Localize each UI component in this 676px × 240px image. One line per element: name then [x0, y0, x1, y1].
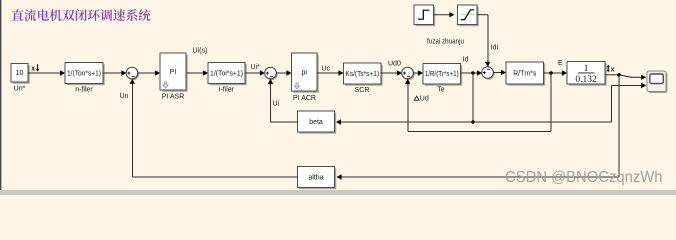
wire PI ACR to SCR	[317, 70, 344, 75]
wire beta line to scope input 2	[473, 83, 646, 122]
wire sum4 to R/Tm*s	[493, 70, 506, 75]
svg-text:Ui(s): Ui(s)	[193, 48, 208, 55]
wire sum3 to Te	[413, 70, 423, 75]
wire saturation to sum4 (IdL)	[477, 15, 490, 67]
transfer-fcn Te 1/R/(Tr*s+1)	[423, 64, 462, 94]
wire gain to scope input 1	[605, 73, 646, 80]
step block (load torque)	[414, 5, 435, 26]
wire Te to sum4 with Id branch node	[461, 70, 483, 75]
svg-text:Un: Un	[120, 93, 129, 100]
sum junction 1 (speed error)	[126, 67, 139, 80]
svg-text:altha: altha	[308, 174, 323, 181]
svg-text:Uc: Uc	[322, 66, 331, 73]
svg-text:Id: Id	[463, 57, 469, 64]
svg-text:i-filer: i-filer	[219, 87, 235, 94]
svg-text:CSDN @BNOCzqnzWh: CSDN @BNOCzqnzWh	[505, 169, 663, 186]
svg-text:1/R/(Tr*s+1): 1/R/(Tr*s+1)	[425, 71, 459, 78]
svg-text:1/(Ton*s+1): 1/(Ton*s+1)	[67, 70, 101, 77]
svg-text:Un*: Un*	[14, 86, 26, 93]
transfer-fcn i-filer 1/(Toi*s+1)	[208, 63, 247, 94]
wire beta to sum2	[268, 79, 298, 122]
bottom scrollbar strip	[0, 190, 676, 195]
wire Un* to n-filer	[28, 70, 65, 75]
annotation updown-x	[607, 67, 609, 71]
svg-text:E: E	[558, 60, 563, 67]
wire SCR to sum3	[381, 70, 402, 75]
sum junction 3 (armature voltage minus EMF)	[402, 67, 415, 80]
saturation block	[458, 5, 479, 26]
svg-text:beta: beta	[309, 119, 323, 126]
wire Id node down to beta line	[471, 73, 474, 124]
svg-text:Ud0: Ud0	[388, 60, 401, 67]
sum junction 2 (current error)	[265, 67, 278, 80]
svg-text:Te: Te	[437, 87, 445, 94]
svg-text:1: 1	[584, 64, 589, 74]
svg-text:Ui*: Ui*	[251, 64, 261, 71]
svg-text:x: x	[611, 66, 615, 73]
wire step to saturation	[434, 12, 455, 17]
wire E node down-left-up to sum3 (back EMF)	[405, 73, 551, 132]
svg-text:pi: pi	[302, 69, 308, 76]
svg-text:0.132: 0.132	[575, 75, 597, 85]
scope block	[647, 71, 668, 93]
svg-text:Ks/(Ts*s+1): Ks/(Ts*s+1)	[346, 71, 380, 78]
gain beta (current feedback)	[298, 111, 337, 134]
wire n-filer to sum1	[103, 70, 126, 75]
svg-text:1/(Toi*s+1): 1/(Toi*s+1)	[210, 70, 243, 77]
wire sum2 to PI ACR	[276, 70, 291, 75]
source block Un* value 10	[11, 64, 30, 93]
svg-text:Ui: Ui	[273, 101, 280, 108]
wire into beta block	[336, 119, 473, 124]
transfer-fcn SCR Ks/(Ts*s+1)	[344, 63, 383, 94]
gain block 1/0.132	[567, 62, 607, 86]
PI current regulator ACR	[292, 53, 319, 102]
wire output node down to altha line	[618, 75, 620, 177]
wire altha to sum1	[130, 79, 298, 177]
gain altha (speed feedback)	[298, 167, 337, 190]
PI speed regulator ASR	[160, 53, 188, 101]
svg-text:PI ACR: PI ACR	[293, 95, 316, 102]
svg-text:PI: PI	[170, 69, 177, 76]
transfer-fcn n-filer 1/(Ton*s+1)	[65, 63, 105, 94]
svg-text:n-filer: n-filer	[75, 87, 93, 94]
svg-text:PI ASR: PI ASR	[162, 94, 185, 101]
svg-text:10: 10	[16, 70, 24, 77]
svg-text:x: x	[31, 65, 35, 72]
transfer-fcn R/Tm*s	[506, 62, 545, 86]
wire i-filer to sum2	[245, 70, 265, 75]
svg-text:SCR: SCR	[355, 87, 370, 94]
svg-text:Ud: Ud	[420, 96, 429, 103]
svg-text:fuzai zhuanju: fuzai zhuanju	[427, 39, 464, 46]
sum junction 4 (Id minus IdL)	[482, 67, 495, 80]
svg-text:IdI: IdI	[491, 45, 499, 52]
wire sum1 to PI ASR	[138, 70, 160, 75]
wire R/Tm*s to gain with E branch node	[544, 70, 568, 75]
label triangle-Ud	[414, 96, 419, 100]
svg-text:R/Tm*s: R/Tm*s	[513, 70, 537, 77]
title: 直流电机双闭环调速系统	[12, 9, 151, 21]
wire PI ASR to i-filer	[186, 70, 208, 75]
left window border	[0, 0, 1, 195]
wire into altha block	[337, 174, 620, 179]
